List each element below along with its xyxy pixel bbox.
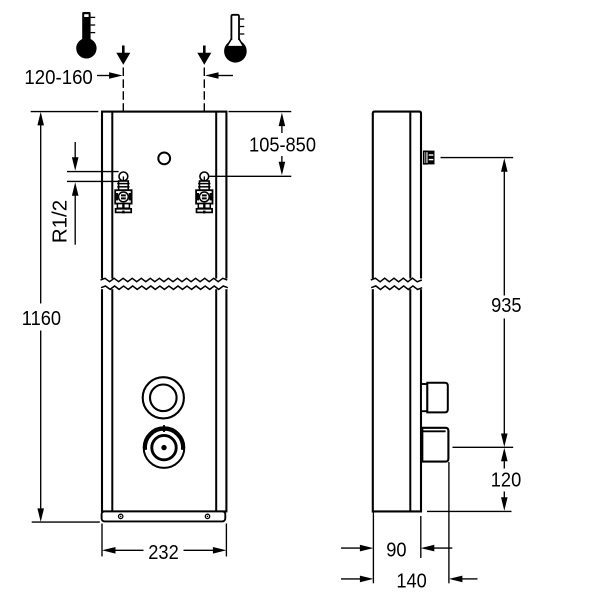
upper knob side view bbox=[421, 383, 448, 413]
svg-text:120: 120 bbox=[491, 469, 522, 492]
front panel outline bbox=[102, 112, 226, 512]
side panel inner edge bbox=[409, 112, 411, 512]
valve left (cold water inlet) bbox=[115, 172, 131, 213]
svg-text:105-850: 105-850 bbox=[249, 133, 316, 156]
break band front bbox=[97, 279, 232, 290]
break line front lower bbox=[101, 286, 228, 289]
shower outlet circle bbox=[143, 377, 184, 418]
935 dimension bbox=[441, 158, 522, 447]
break line side lower bbox=[371, 286, 422, 290]
105-850 dimension bbox=[210, 112, 317, 177]
hot thermometer icon bbox=[76, 12, 96, 59]
lower knob side view (thermostat) bbox=[422, 428, 448, 462]
svg-text:935: 935 bbox=[491, 294, 521, 317]
sensor circle bbox=[158, 153, 170, 165]
inlet fitting side view bbox=[424, 151, 435, 165]
flow arrow right bbox=[197, 46, 211, 65]
svg-text:R1/2: R1/2 bbox=[48, 200, 71, 243]
flow arrow left bbox=[116, 46, 130, 65]
base plate bbox=[102, 511, 226, 521]
cold thermometer icon bbox=[225, 15, 246, 62]
svg-text:140: 140 bbox=[396, 569, 427, 592]
1160 dimension bbox=[22, 112, 100, 522]
control knob front bbox=[144, 425, 185, 468]
120 dimension bbox=[427, 447, 521, 511]
svg-text:90: 90 bbox=[386, 539, 406, 562]
center line left inlet bbox=[122, 68, 124, 172]
svg-text:120-160: 120-160 bbox=[24, 66, 92, 89]
svg-text:232: 232 bbox=[148, 541, 178, 564]
break line front upper bbox=[101, 278, 228, 281]
232 dimension bbox=[102, 524, 226, 565]
base plate screw right bbox=[205, 514, 209, 518]
base plate screw left bbox=[119, 514, 123, 518]
center line right inlet bbox=[203, 68, 205, 172]
140 dimension bbox=[341, 462, 478, 593]
dimension 120-160 bbox=[24, 66, 233, 89]
front panel inner edge right bbox=[215, 112, 217, 511]
break band side bbox=[368, 279, 426, 290]
R1/2 dimension bbox=[48, 142, 118, 245]
side panel outline bbox=[373, 112, 421, 512]
valve right (hot water inlet) bbox=[196, 172, 212, 213]
front panel inner edge left bbox=[111, 112, 113, 511]
svg-text:1160: 1160 bbox=[22, 307, 61, 330]
break line side upper bbox=[371, 278, 422, 282]
90 dimension bbox=[341, 511, 452, 583]
